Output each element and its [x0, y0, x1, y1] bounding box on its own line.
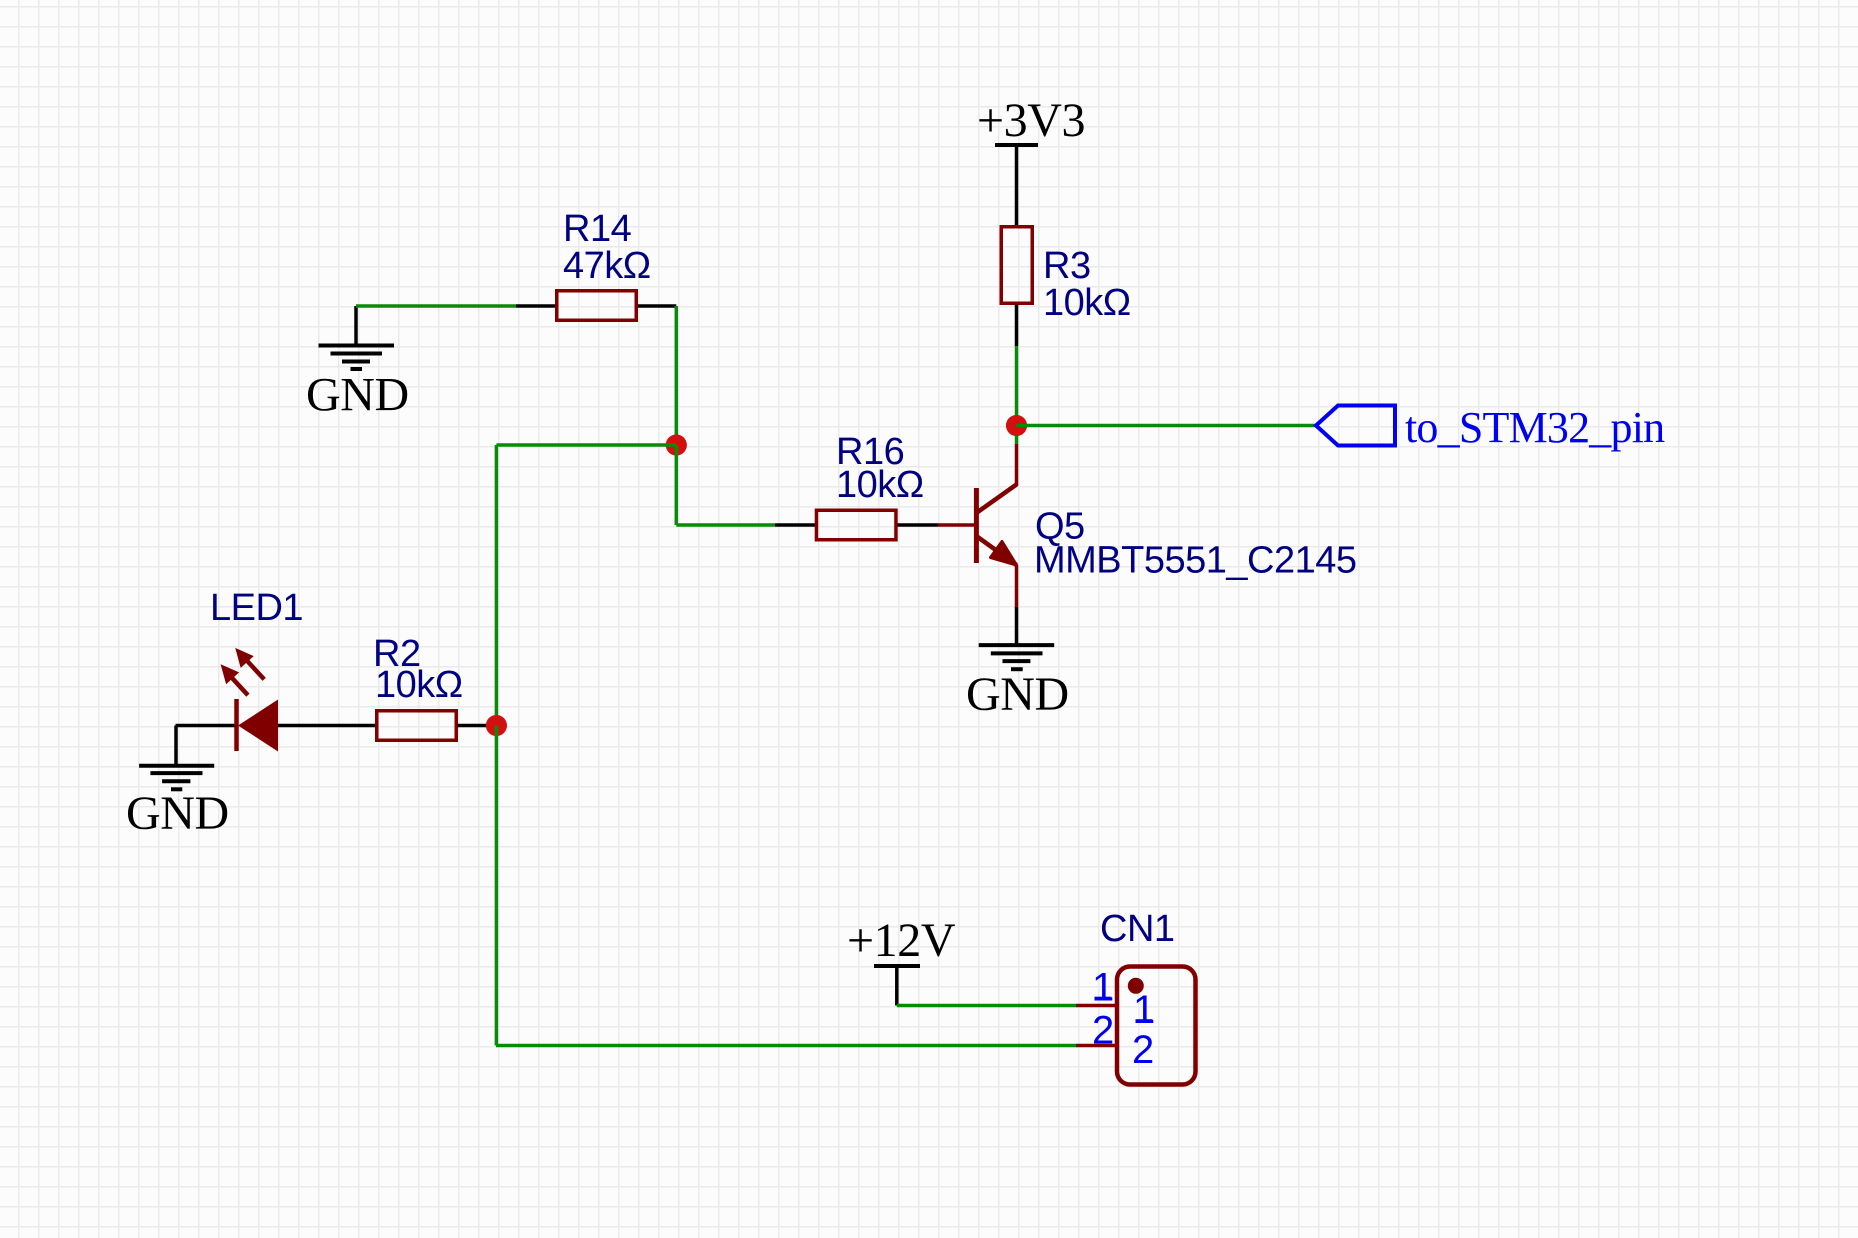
resistor R14 right pin [638, 304, 676, 308]
svg-text:GND: GND [306, 369, 409, 422]
resistor R2 body [377, 711, 457, 741]
transistor Q5 emitter pin [1015, 565, 1019, 607]
svg-text:LED1: LED1 [210, 587, 303, 629]
resistor R2 right pin [458, 724, 497, 728]
wire to R16 [676, 523, 775, 527]
svg-text:to_STM32_pin: to_STM32_pin [1405, 403, 1665, 452]
connector CN1 pin1 lead [1076, 1004, 1117, 1008]
svg-text:GND: GND [126, 787, 229, 840]
wire node C down to CN1 row [495, 726, 499, 1046]
junction node at collector [1006, 415, 1027, 436]
svg-text:R3: R3 [1043, 245, 1091, 287]
junction node B [666, 434, 687, 455]
resistor R3 bottom pin [1015, 305, 1019, 347]
wire node B down to R16 row [675, 445, 679, 525]
svg-text:GND: GND [966, 668, 1069, 721]
svg-text:10kΩ: 10kΩ [836, 464, 924, 506]
resistor R16 body [816, 510, 896, 540]
connector CN1 pin2 lead [1076, 1044, 1117, 1048]
wire R3 to node [1015, 346, 1019, 444]
transistor Q5 base pin [938, 523, 977, 527]
wire emitter to GND2 [1015, 612, 1019, 646]
ground GND1 wire [354, 306, 358, 346]
transistor Q5 base bar [974, 488, 979, 563]
resistor R16 right pin [898, 523, 939, 527]
ground GND3 wire [174, 726, 178, 767]
svg-text:47kΩ: 47kΩ [563, 245, 651, 287]
LED1 arrow b [235, 648, 264, 680]
transistor Q5 collector pin [1015, 444, 1019, 486]
LED1 triangle [238, 700, 278, 752]
wire GND1 to R14 [356, 304, 516, 308]
svg-text:CN1: CN1 [1100, 908, 1175, 950]
LED1 arrow a [221, 664, 248, 695]
resistor R14 left pin [516, 304, 556, 308]
wire emitter black part top [1015, 607, 1019, 612]
power +3V3 stem wire [1015, 145, 1019, 227]
connector CN1 body [1117, 967, 1196, 1085]
svg-text:2: 2 [1092, 1009, 1114, 1053]
wire left branch down to LED row [495, 445, 499, 726]
svg-text:+3V3: +3V3 [977, 94, 1085, 147]
wire R14 down to node B [675, 306, 679, 445]
net port to_STM32_pin flag [1316, 406, 1395, 446]
ground GND3 symbol [139, 766, 214, 790]
wire +12V to CN1 pin1 [897, 1004, 1076, 1008]
svg-text:MMBT5551_C2145: MMBT5551_C2145 [1034, 540, 1357, 582]
svg-text:R14: R14 [563, 208, 632, 250]
resistor R3 body [1001, 227, 1032, 304]
svg-text:2: 2 [1132, 1028, 1154, 1072]
svg-text:10kΩ: 10kΩ [1043, 282, 1131, 324]
svg-text:10kΩ: 10kΩ [375, 664, 463, 706]
resistor R16 left pin [775, 523, 816, 527]
wire node to port [1017, 424, 1317, 428]
resistor R14 body [557, 291, 637, 321]
power +12V bar [874, 964, 920, 968]
wire to CN1 pin2 [496, 1044, 1076, 1048]
svg-text:1: 1 [1133, 988, 1155, 1032]
transistor Q5 emitter arrow [991, 542, 1017, 566]
junction node C [486, 715, 507, 736]
ground GND2 symbol [979, 645, 1054, 669]
LED1 cathode bar [234, 699, 239, 751]
ground GND1 symbol [319, 346, 395, 370]
wire LED to R2 [278, 724, 375, 728]
transistor Q5 emitter diagonal [977, 537, 1017, 566]
svg-text:+12V: +12V [847, 914, 956, 967]
wire node B left [496, 443, 676, 447]
svg-text:1: 1 [1092, 966, 1114, 1010]
connector CN1 polarity dot [1128, 978, 1144, 994]
transistor Q5 collector diagonal [977, 485, 1017, 513]
power +12V stem [895, 966, 899, 1006]
power +3V3 bar [995, 143, 1038, 147]
wire GND3 to LED [176, 724, 238, 728]
